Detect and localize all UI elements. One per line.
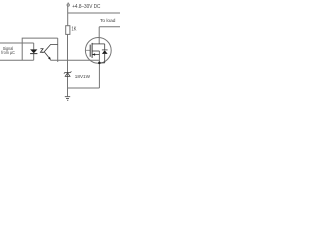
optocoupler U1 box right edge (57, 38, 59, 62)
wire input bottom signal (0, 59, 34, 61)
transistor Q1 mosfet circle (85, 38, 111, 64)
mosfet gate lead (86, 49, 91, 51)
ground bar 1 (65, 96, 70, 98)
wire drain vertical into mosfet (98, 27, 100, 44)
wire input top signal (0, 42, 34, 44)
body diode triangle (102, 50, 108, 54)
wire rail below resistor down to ground (67, 34, 69, 96)
wire terminal down to resistor (67, 6, 69, 26)
resistor R1 1K (66, 26, 70, 35)
body diode cathode bar (102, 49, 108, 51)
wire LED cathode (33, 54, 35, 60)
svg-text:1K: 1K (72, 26, 77, 32)
wire source vertical down (98, 51, 100, 88)
wire source to ground junction (68, 87, 100, 89)
svg-text:+4.8–30V DC: +4.8–30V DC (72, 4, 100, 10)
wire LED anode (33, 43, 35, 49)
ground bar 3 (67, 99, 68, 101)
LED D2 cathode bar (30, 52, 37, 55)
mosfet gate bar (89, 45, 91, 57)
svg-text:To load: To load (100, 18, 116, 23)
mosfet source arrowhead (92, 53, 95, 55)
zener diode D1 open triangle (65, 73, 70, 77)
terminal top tick (67, 3, 69, 4)
zener diode D1 cathode bar with bent ticks (64, 71, 72, 73)
phototransistor emitter arrowhead (48, 57, 51, 60)
mosfet source stub (92, 54, 99, 56)
junction dot source-diode (98, 62, 101, 65)
wire emitter node to mosfet (50, 59, 99, 61)
svg-text:from µC: from µC (1, 50, 15, 55)
optocoupler U1 box left and top edges (22, 38, 58, 60)
ground bar 2 (66, 98, 69, 100)
body diode connector to source (99, 62, 104, 64)
body diode anode lead (104, 54, 106, 63)
photon arrows z (40, 49, 43, 53)
mosfet body stub (92, 50, 99, 52)
mosfet channel bar (91, 43, 93, 58)
LED D2 triangle (30, 49, 37, 53)
wire drain line to load (99, 26, 120, 28)
phototransistor flag outline (44, 45, 58, 60)
terminal +V (67, 4, 69, 6)
wire top rail to load (68, 12, 120, 14)
mosfet drain stub (92, 43, 105, 45)
body diode cathode lead (104, 44, 106, 50)
svg-text:18V1W: 18V1W (75, 74, 91, 80)
